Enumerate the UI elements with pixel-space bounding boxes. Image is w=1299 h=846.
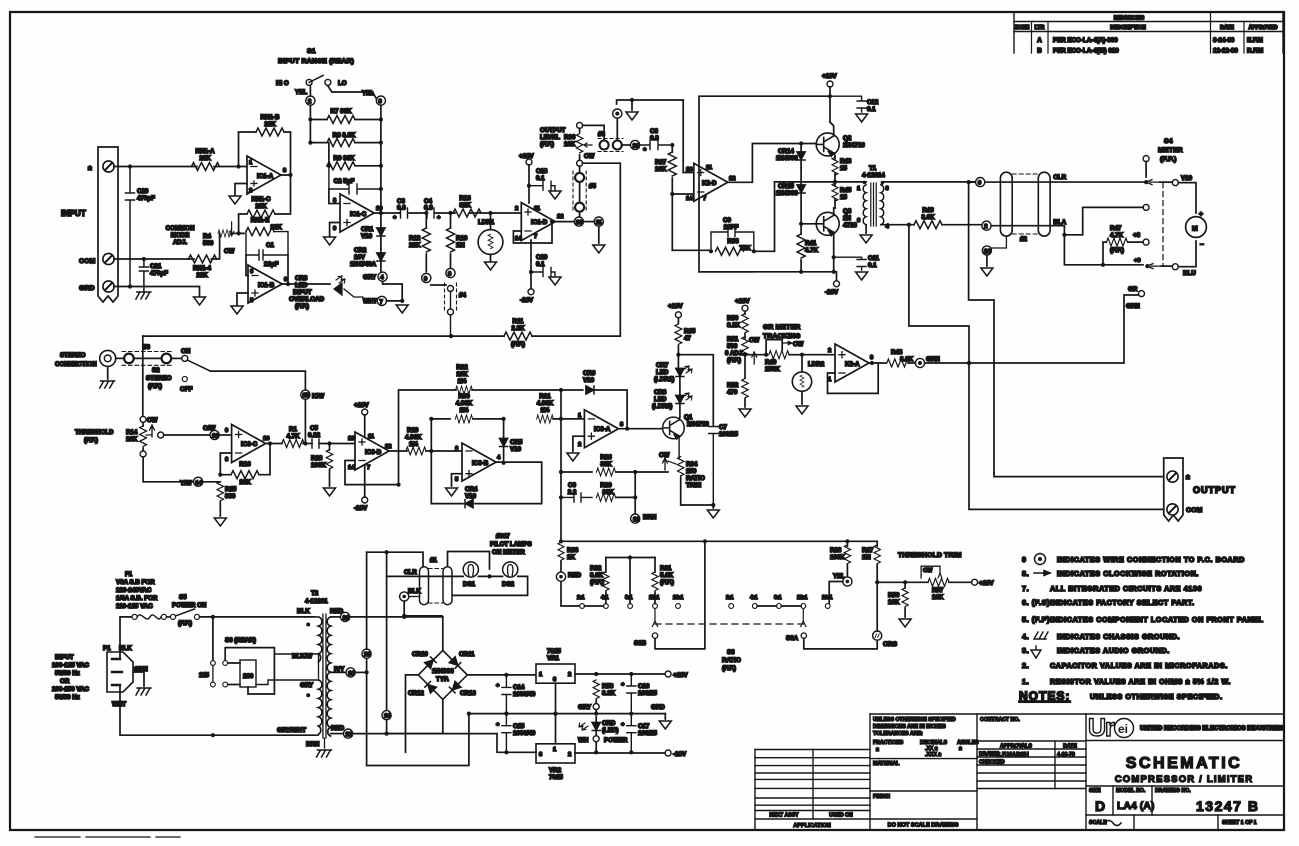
text S3 RATIO bbox=[722, 649, 741, 672]
svg-text:3.6K: 3.6K bbox=[900, 356, 914, 363]
terminal screw COM bbox=[103, 253, 114, 264]
svg-text:1: 1 bbox=[857, 186, 861, 192]
svg-text:4.99K: 4.99K bbox=[405, 434, 422, 441]
text CLR BLK bbox=[404, 569, 421, 595]
svg-text:12:1: 12:1 bbox=[797, 595, 807, 601]
lamp DS2 bbox=[502, 562, 518, 588]
resistor R16 feedback bbox=[218, 444, 270, 487]
svg-text:C8: C8 bbox=[650, 128, 658, 135]
svg-text:–: – bbox=[1200, 241, 1204, 248]
svg-text:RED: RED bbox=[568, 572, 582, 579]
switch S2 bbox=[146, 348, 210, 393]
svg-text:C14: C14 bbox=[513, 684, 525, 691]
svg-text:WHT: WHT bbox=[363, 298, 377, 305]
svg-text:S3A: S3A bbox=[786, 635, 799, 642]
capacitor C12 bbox=[830, 96, 879, 122]
svg-text:4-12261: 4-12261 bbox=[305, 598, 328, 605]
resistor R30 bbox=[429, 393, 506, 423]
svg-text:15: 15 bbox=[840, 165, 847, 172]
svg-text:7: 7 bbox=[380, 300, 383, 306]
vertical junction rail x561 bbox=[559, 390, 563, 543]
svg-text:C6: C6 bbox=[568, 482, 576, 489]
output terminal block bbox=[1164, 458, 1183, 521]
potentiometer R51 bbox=[725, 336, 759, 378]
svg-text:C17: C17 bbox=[638, 723, 650, 730]
svg-text:V10: V10 bbox=[465, 493, 477, 500]
resistor R12 bbox=[409, 211, 430, 272]
svg-text:IC1-D: IC1-D bbox=[531, 219, 548, 226]
resistor R8 bbox=[308, 120, 381, 147]
svg-text:(LDR2): (LDR2) bbox=[652, 403, 672, 410]
resistor R52 bbox=[727, 379, 751, 417]
svg-text:INDICATES FACTORY SELECT PART.: INDICATES FACTORY SELECT PART. bbox=[1050, 598, 1195, 607]
svg-text:R31: R31 bbox=[660, 565, 672, 572]
resistor RN1-B bbox=[256, 114, 284, 136]
svg-text:11: 11 bbox=[706, 165, 713, 171]
svg-text:22K: 22K bbox=[255, 203, 267, 210]
wire RED to contacts bbox=[561, 581, 579, 606]
svg-text:STEREO: STEREO bbox=[146, 375, 172, 382]
svg-text:+: + bbox=[621, 722, 625, 728]
pcb connection 3 bbox=[328, 86, 386, 105]
svg-text:+: + bbox=[496, 722, 500, 728]
svg-text:SCHEMATIC: SCHEMATIC bbox=[1126, 755, 1242, 772]
svg-text:LTR: LTR bbox=[1035, 25, 1045, 31]
svg-text:DS1: DS1 bbox=[463, 581, 476, 588]
revisions table bbox=[1014, 12, 1283, 55]
zener CR1 bbox=[361, 213, 385, 249]
svg-text:M: M bbox=[1192, 226, 1198, 233]
svg-text:Q1: Q1 bbox=[684, 414, 693, 421]
wire Q3 collector/emitter bbox=[832, 208, 836, 274]
svg-text:0.1: 0.1 bbox=[867, 106, 876, 113]
capacitor C14 bbox=[496, 675, 536, 716]
svg-text:INPUT: INPUT bbox=[61, 209, 86, 218]
switch S3A common bbox=[786, 633, 873, 649]
svg-text:(F.P.): (F.P.) bbox=[84, 437, 98, 444]
svg-text:250K: 250K bbox=[765, 366, 780, 373]
output screw com bbox=[1167, 504, 1203, 515]
svg-text:3.3K: 3.3K bbox=[602, 690, 616, 697]
diode CR4 feedback bbox=[431, 462, 541, 508]
svg-text:22K: 22K bbox=[199, 155, 211, 162]
svg-text:R41: R41 bbox=[805, 240, 817, 247]
svg-text:OUTPUT: OUTPUT bbox=[540, 127, 566, 134]
svg-text:14: 14 bbox=[515, 236, 522, 242]
svg-text:CR6: CR6 bbox=[583, 370, 596, 377]
svg-text:1M: 1M bbox=[456, 242, 465, 249]
svg-text:ON METER: ON METER bbox=[492, 549, 525, 556]
svg-text:DIMENSIONS ARE IN INCHES: DIMENSIONS ARE IN INCHES bbox=[873, 724, 946, 730]
svg-text:11: 11 bbox=[534, 206, 541, 212]
svg-text:10V: 10V bbox=[354, 254, 366, 261]
svg-text:2.2: 2.2 bbox=[568, 489, 577, 496]
wire WHT to ground bbox=[383, 281, 409, 313]
resistor R29 bbox=[596, 472, 637, 501]
ground IC1-B pin5 bbox=[231, 293, 248, 314]
svg-text:C18: C18 bbox=[536, 168, 548, 175]
svg-text:5: 5 bbox=[455, 477, 459, 483]
svg-text:47: 47 bbox=[684, 335, 691, 342]
svg-text:100-125 VAC: 100-125 VAC bbox=[52, 662, 90, 669]
svg-text:230: 230 bbox=[243, 673, 254, 680]
svg-text:1.: 1. bbox=[1022, 677, 1029, 686]
svg-text:(F.P.): (F.P.) bbox=[1110, 247, 1124, 254]
svg-text:8:1: 8:1 bbox=[774, 595, 782, 601]
svg-text:22K: 22K bbox=[196, 272, 208, 279]
svg-text:MODE: MODE bbox=[171, 232, 190, 239]
svg-text:APPROVED: APPROVED bbox=[1248, 25, 1277, 31]
resistor R32 bbox=[590, 558, 609, 604]
wire ORG up to R27 bbox=[876, 582, 878, 631]
svg-text:CONNECTION: CONNECTION bbox=[55, 361, 97, 368]
svg-text:4: 4 bbox=[497, 455, 501, 461]
wire S3B top rail bbox=[606, 555, 655, 603]
svg-text:1%: 1% bbox=[458, 378, 467, 385]
svg-text:(F.P.): (F.P.) bbox=[511, 341, 525, 348]
svg-text:V10: V10 bbox=[583, 377, 595, 384]
svg-text:10K: 10K bbox=[239, 479, 251, 486]
svg-text:22K: 22K bbox=[409, 242, 421, 249]
text F1 fuse bbox=[116, 571, 158, 610]
svg-text:R58: R58 bbox=[602, 683, 614, 690]
svg-text:470pF: 470pF bbox=[150, 270, 168, 277]
svg-text:+: + bbox=[496, 683, 500, 689]
svg-text:R48: R48 bbox=[891, 349, 903, 356]
svg-text:R.F.MARSH: R.F.MARSH bbox=[996, 753, 1029, 759]
svg-text:R1: R1 bbox=[289, 426, 297, 433]
svg-text:POWER ON: POWER ON bbox=[172, 602, 207, 609]
svg-text:1N4740A: 1N4740A bbox=[350, 261, 377, 268]
svg-text:S3: S3 bbox=[727, 649, 735, 656]
wire V10 to meter bbox=[1178, 183, 1196, 213]
svg-text:DS2: DS2 bbox=[502, 581, 515, 588]
svg-text:R30: R30 bbox=[458, 393, 470, 400]
svg-text:CW: CW bbox=[749, 337, 759, 344]
svg-text:GRY: GRY bbox=[363, 274, 377, 281]
wire BLU to meter bbox=[1178, 241, 1196, 267]
svg-text:APPLICATION: APPLICATION bbox=[793, 823, 831, 829]
svg-text:0.1: 0.1 bbox=[536, 175, 545, 182]
svg-text:R32: R32 bbox=[590, 565, 602, 572]
wire bridge DC minus bbox=[406, 675, 419, 752]
svg-text:CR15: CR15 bbox=[778, 183, 794, 190]
svg-text:CR13: CR13 bbox=[460, 690, 476, 697]
svg-text:2: 2 bbox=[568, 672, 571, 678]
svg-text:12: 12 bbox=[557, 214, 563, 220]
resistor R56 bbox=[888, 582, 911, 627]
LED CR7 bbox=[654, 355, 692, 383]
svg-text:C2 5pF: C2 5pF bbox=[334, 178, 355, 185]
svg-text:MATERIAL: MATERIAL bbox=[873, 761, 900, 767]
svg-text:+9: +9 bbox=[1134, 258, 1141, 264]
svg-text:4728: 4728 bbox=[843, 222, 857, 229]
wire feedback to T1 row bbox=[754, 182, 835, 251]
svg-text:VR2: VR2 bbox=[549, 767, 562, 774]
svg-text:S1: S1 bbox=[307, 48, 316, 55]
svg-text:3: 3 bbox=[870, 355, 874, 361]
svg-text:C15: C15 bbox=[513, 723, 525, 730]
op-amp IC1-C bbox=[333, 194, 382, 232]
resistor R18 bbox=[311, 444, 336, 497]
text THRESHOLD bbox=[75, 429, 114, 444]
wire input hot bbox=[114, 164, 247, 168]
svg-text:+: + bbox=[393, 215, 397, 221]
svg-text:+8: +8 bbox=[1133, 232, 1141, 239]
svg-text:BLK: BLK bbox=[119, 645, 132, 652]
plug P1 bbox=[103, 645, 148, 708]
svg-text:+: + bbox=[643, 147, 647, 153]
resistor R1 bbox=[282, 426, 312, 448]
svg-text:R8 3.3K: R8 3.3K bbox=[333, 132, 356, 139]
text GR METER TRACKING bbox=[763, 324, 800, 340]
svg-text:8: 8 bbox=[225, 457, 229, 463]
svg-text:VR1: VR1 bbox=[547, 655, 560, 662]
svg-text:220-240VAC: 220-240VAC bbox=[116, 587, 152, 594]
capacitor C15 bbox=[496, 714, 536, 755]
svg-text:C1: C1 bbox=[266, 242, 274, 249]
wire long rail y539.6 bbox=[561, 539, 877, 543]
svg-text:10K: 10K bbox=[655, 166, 667, 173]
svg-text:POWER: POWER bbox=[604, 737, 628, 744]
svg-text:11: 11 bbox=[368, 434, 375, 440]
wire Q1 collector emitter bbox=[659, 417, 680, 459]
potentiometer R34 RATIO TRIM bbox=[663, 457, 716, 508]
text COMMON MODE ADJ bbox=[166, 225, 195, 246]
svg-text:USED ON: USED ON bbox=[829, 813, 853, 819]
svg-text:DESCRIPTION: DESCRIPTION bbox=[1110, 25, 1146, 31]
svg-text:+18V: +18V bbox=[668, 303, 683, 310]
wire GRD row bbox=[114, 284, 200, 297]
svg-text:IC3-A: IC3-A bbox=[594, 426, 611, 433]
capacitor C21 bbox=[139, 259, 168, 292]
svg-text:R12: R12 bbox=[409, 235, 421, 242]
wire stereo vertical bbox=[142, 336, 144, 416]
svg-text:R52: R52 bbox=[727, 382, 739, 389]
switch S6 voltage select bbox=[199, 617, 274, 694]
svg-text:1: 1 bbox=[828, 377, 832, 383]
wire K2-D output bbox=[728, 141, 816, 182]
svg-text:500: 500 bbox=[727, 343, 738, 350]
switch S4 mid contact bbox=[1064, 204, 1149, 234]
svg-text:2:1: 2:1 bbox=[726, 595, 734, 601]
svg-text:R47: R47 bbox=[1110, 225, 1122, 232]
svg-text:R11: R11 bbox=[512, 318, 524, 325]
svg-text:(F.P.): (F.P.) bbox=[727, 357, 741, 364]
svg-text:CR3: CR3 bbox=[295, 275, 308, 282]
svg-text:OUTPUT: OUTPUT bbox=[1193, 485, 1236, 495]
switch S4 V10 contact bbox=[1143, 156, 1192, 186]
resistor R35 bbox=[675, 324, 696, 357]
wire COM row bbox=[114, 257, 194, 261]
svg-text:100K: 100K bbox=[830, 554, 845, 561]
svg-text:+18V: +18V bbox=[354, 402, 369, 409]
wire P1 to T2 bottom bbox=[120, 685, 305, 737]
svg-text:BLU: BLU bbox=[1183, 270, 1196, 277]
svg-text:12: 12 bbox=[385, 444, 391, 450]
resistor RN1-E bbox=[246, 217, 282, 236]
text S1 INPUT RANGE (REAR) bbox=[278, 48, 354, 65]
op-amp IC3-A bbox=[578, 410, 624, 448]
svg-text:CR4: CR4 bbox=[465, 486, 478, 493]
svg-text:14: 14 bbox=[686, 196, 693, 202]
svg-text:(F.P.): (F.P.) bbox=[590, 579, 604, 586]
svg-text:GRY: GRY bbox=[578, 704, 592, 711]
wire IC1-D out bbox=[550, 220, 574, 224]
switch S3B common bbox=[634, 541, 705, 649]
svg-text:CW: CW bbox=[584, 153, 594, 160]
svg-text:CR8: CR8 bbox=[654, 389, 667, 396]
svg-text:115: 115 bbox=[199, 672, 210, 679]
capacitor C16 bbox=[621, 674, 657, 716]
svg-text:330: 330 bbox=[225, 493, 236, 500]
svg-text:3.6K: 3.6K bbox=[921, 214, 935, 221]
svg-text:33K: 33K bbox=[600, 461, 612, 468]
text INPUT voltages bbox=[52, 654, 90, 701]
IC3-D feedback bbox=[345, 451, 407, 487]
svg-text:(F.P.): (F.P.) bbox=[660, 579, 674, 586]
svg-text:PILOT LAMPS: PILOT LAMPS bbox=[490, 541, 532, 548]
wire T1 secondary top bbox=[882, 182, 975, 184]
svg-text:6.8: 6.8 bbox=[424, 205, 433, 212]
svg-text:LA4 (A): LA4 (A) bbox=[1117, 800, 1154, 812]
svg-text:R18: R18 bbox=[311, 455, 323, 462]
op-amp IC3-B bbox=[455, 443, 501, 483]
wire S1 verticals bbox=[308, 105, 383, 208]
svg-text:R34: R34 bbox=[686, 461, 698, 468]
wire IC3-A out to Q1 bbox=[618, 427, 662, 431]
tap RED bottom bbox=[331, 725, 443, 738]
svg-text:6: 6 bbox=[857, 218, 861, 224]
op-amp IC1-A bbox=[247, 156, 287, 194]
svg-text:SIZE: SIZE bbox=[1089, 788, 1101, 794]
photocell LDR2 bbox=[792, 353, 824, 414]
resistor R22 bbox=[456, 364, 564, 394]
resistor R10 bbox=[447, 213, 468, 272]
svg-text:2.: 2. bbox=[1022, 661, 1029, 670]
terminal screw GRD bbox=[103, 281, 114, 292]
UREI logo bbox=[1088, 714, 1283, 742]
lamp DS1 bbox=[463, 562, 478, 588]
svg-text:GR METER: GR METER bbox=[763, 324, 800, 331]
wire GR terminal bbox=[969, 286, 1145, 363]
svg-text:21: 21 bbox=[343, 615, 350, 621]
svg-text:9: 9 bbox=[225, 428, 229, 434]
svg-text:19: 19 bbox=[384, 714, 391, 720]
svg-text:C19: C19 bbox=[536, 254, 548, 261]
potentiometer R14 bbox=[126, 416, 164, 457]
svg-text:COM: COM bbox=[1186, 507, 1203, 514]
svg-text:5. (F.P): 5. (F.P) bbox=[1022, 615, 1050, 624]
svg-text:75K: 75K bbox=[739, 245, 751, 252]
svg-text:1M: 1M bbox=[862, 554, 871, 561]
svg-text:BRN: BRN bbox=[306, 741, 320, 748]
+18V supply bbox=[665, 671, 688, 679]
svg-text:CLR: CLR bbox=[1053, 174, 1066, 181]
svg-text:OR: OR bbox=[60, 678, 70, 685]
svg-text:(F.P.): (F.P.) bbox=[148, 383, 162, 390]
svg-text:LDR2: LDR2 bbox=[808, 361, 825, 368]
svg-text:UNITED RECORDING ELECTRONICS I: UNITED RECORDING ELECTRONICS INDUSTRIES bbox=[1140, 726, 1283, 732]
notes bbox=[1019, 554, 1264, 704]
resistor R46 bbox=[914, 207, 942, 229]
wire S2 to pcb 15 bbox=[210, 371, 305, 390]
capacitor C6 bbox=[561, 482, 592, 502]
svg-text:ei: ei bbox=[1118, 722, 1128, 736]
svg-text:+18V: +18V bbox=[822, 73, 837, 80]
svg-text:R10: R10 bbox=[456, 235, 468, 242]
wire bridge DC plus bbox=[467, 673, 536, 677]
svg-text:B: B bbox=[1037, 48, 1042, 55]
transformer T2 bbox=[256, 590, 332, 757]
wire shield drain bbox=[991, 236, 1006, 248]
svg-text:INPUT: INPUT bbox=[293, 289, 312, 296]
svg-text:STEREO: STEREO bbox=[60, 352, 86, 359]
svg-text:-18V: -18V bbox=[673, 751, 687, 758]
wire threshold trim row bbox=[877, 580, 971, 584]
transistor Q1 bbox=[663, 414, 710, 439]
shielded pair #4 bbox=[431, 283, 467, 336]
svg-text:GRD: GRD bbox=[651, 704, 665, 711]
input terminal block bbox=[98, 147, 118, 302]
svg-text:P1: P1 bbox=[103, 645, 111, 652]
svg-text:+: + bbox=[1199, 211, 1203, 218]
svg-text:R43: R43 bbox=[840, 158, 852, 165]
resistor RN1-4 bbox=[189, 255, 217, 279]
resistor R33 bbox=[558, 542, 579, 572]
svg-text:15: 15 bbox=[303, 393, 310, 399]
resistor R37 bbox=[655, 143, 676, 194]
svg-text:R29: R29 bbox=[600, 482, 612, 489]
svg-text:RN1-A: RN1-A bbox=[196, 148, 215, 155]
phone jack J1 bbox=[100, 350, 116, 388]
wire left feedback rail bbox=[399, 390, 463, 504]
GRY terminal bbox=[578, 704, 599, 716]
diode CR14 bbox=[776, 144, 805, 169]
svg-text:CHECKED: CHECKED bbox=[979, 760, 1005, 766]
resistor R47 bbox=[1103, 225, 1149, 265]
svg-text:4.99K: 4.99K bbox=[537, 400, 554, 407]
ground IC3-B bbox=[446, 474, 463, 496]
svg-text:2.2K: 2.2K bbox=[511, 325, 525, 332]
svg-text:3.: 3. bbox=[1022, 646, 1029, 655]
resistor R28 bbox=[561, 454, 668, 476]
diode CR15 bbox=[776, 168, 805, 226]
svg-text:C20: C20 bbox=[137, 188, 149, 195]
svg-text:C11: C11 bbox=[868, 255, 880, 262]
svg-text:R15: R15 bbox=[225, 486, 237, 493]
svg-text:100/25: 100/25 bbox=[638, 730, 657, 737]
text STEREO CONNECTION bbox=[55, 352, 97, 368]
svg-text:20:1: 20:1 bbox=[822, 595, 832, 601]
svg-text:1000/40: 1000/40 bbox=[513, 730, 536, 737]
svg-text:BLK: BLK bbox=[408, 588, 421, 595]
svg-text:CR7: CR7 bbox=[656, 362, 669, 369]
svg-text:#3: #3 bbox=[598, 131, 605, 138]
svg-text:R50: R50 bbox=[727, 315, 739, 322]
svg-text:GRY/WHT: GRY/WHT bbox=[277, 727, 306, 734]
svg-text:C5: C5 bbox=[310, 425, 318, 432]
T2 secondary taps bbox=[330, 608, 443, 622]
wire IC1-A feedback bbox=[239, 132, 293, 177]
switch S5 POWER ON bbox=[167, 594, 305, 627]
capacitor C18 bbox=[529, 168, 561, 199]
zener CR2 bbox=[350, 247, 385, 272]
pcb connection 14 Y/W bbox=[143, 457, 203, 487]
svg-text:CW: CW bbox=[147, 417, 157, 424]
svg-text:LED: LED bbox=[654, 396, 667, 403]
svg-text:R49: R49 bbox=[765, 359, 777, 366]
